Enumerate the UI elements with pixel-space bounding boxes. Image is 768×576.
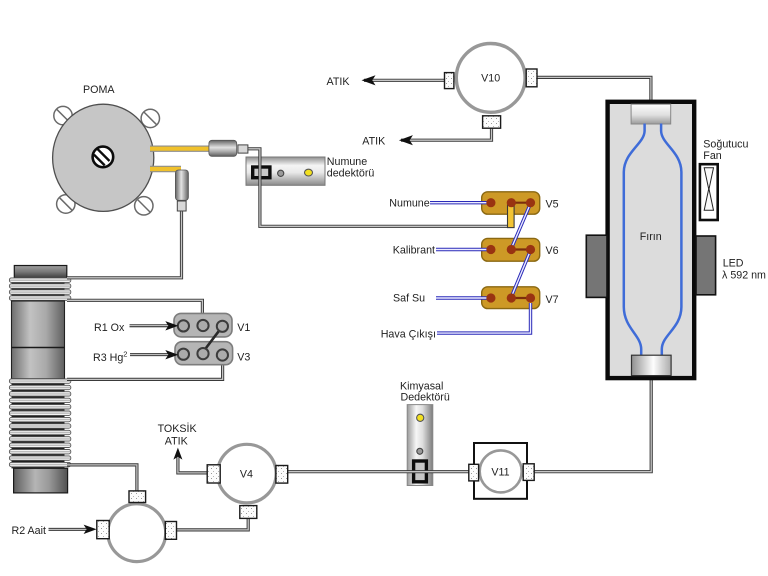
wire column to valve V1 [67,300,202,322]
valve V11 right port [523,464,534,481]
furnace top cap [631,104,671,124]
valve V11 rotor [480,450,522,492]
pump R2 top port [129,491,146,503]
link V1 to V3 [203,326,222,352]
column top cap [14,266,67,279]
svg-text:R1 Ox: R1 Ox [94,322,125,334]
valve V11 body [474,443,527,499]
arrow R3 Hg2 [130,353,169,356]
valve block V1 [174,313,232,337]
sample detector gray lamp [278,170,284,176]
svg-text:ATIK: ATIK [165,435,189,447]
pump R2 body [108,504,166,562]
valve V7 ports [486,293,535,302]
arrow toxic waste [173,448,182,460]
svg-text:R3 Hg2: R3 Hg2 [93,350,127,364]
column rib band 2 [9,379,70,469]
chemical detector window [414,461,427,482]
pump POMA screw top-right [141,109,159,127]
sample detector body [246,157,325,185]
valve V10 body [456,44,525,113]
furnace bottom cap [632,355,672,375]
svg-text:λ 592 nm: λ 592 nm [722,269,766,281]
valve block V7 [482,287,540,309]
valve V4 left port [207,465,220,483]
sample detector yellow lamp [305,169,313,176]
valve block V5 [482,192,540,214]
arrow waste top [362,75,376,85]
fitting vertical cylinder [175,170,188,200]
valve V11 left port [469,464,479,481]
svg-text:V4: V4 [240,468,253,480]
wire column to pump R2 [67,465,137,492]
pump POMA screw top-left [54,106,72,124]
valve V4 right port [276,466,288,484]
chemical detector gray lamp [417,448,423,454]
valve V4 bottom port [240,506,257,519]
maroon link V6 [511,248,530,250]
furnace left tab [586,235,607,297]
blue link V5 to V6 [511,204,530,249]
valve block V3 [175,342,233,365]
blue link V6 to V7 [511,251,530,298]
valve V10 bottom port [483,116,501,128]
wire furnace to V11 to V4 [288,370,651,472]
fitting small plug bottom [177,201,186,211]
wire V10 bottom to waste arrow [401,127,492,140]
svg-text:ATIK: ATIK [362,135,386,147]
chemical detector yellow lamp [417,414,424,421]
blue line Saf Su to V7 [436,296,491,299]
svg-text:V3: V3 [237,351,250,363]
tube pump outlet upper [150,145,209,151]
valve V5 ports [486,198,535,207]
fitting horizontal cylinder [209,140,237,156]
valve block V6 [482,238,540,261]
svg-text:dedektörü: dedektörü [327,167,375,179]
valve V1 ports [178,320,228,332]
pump POMA screw bottom-right [135,197,153,215]
svg-text:V6: V6 [546,245,559,257]
wire V10 to furnace [536,77,651,107]
furnace body [608,102,695,378]
svg-text:Numune: Numune [327,156,367,168]
wire pump to column [67,206,182,278]
svg-text:Hava Çıkışı: Hava Çıkışı [381,329,436,341]
pump R2 left port [97,521,109,539]
svg-text:Soğutucu: Soğutucu [703,138,748,150]
valve V4 body [218,444,277,503]
svg-text:Fırın: Fırın [640,231,662,243]
arrow R1 Ox [130,324,170,327]
blue line Hava Cikisi to V7 [437,303,531,333]
fitting small plug right [238,145,248,153]
svg-text:TOKSİK: TOKSİK [158,422,198,435]
svg-text:V7: V7 [546,294,559,306]
valve V5 yellow stub [508,205,515,228]
svg-text:V10: V10 [481,73,500,85]
valve V10 right port [526,69,537,87]
column body [12,301,65,379]
column bottom cap [14,468,68,493]
svg-text:Kalibrant: Kalibrant [393,245,435,257]
wire V4 bottom to pump R2 [176,517,248,530]
pump POMA body [53,104,154,211]
column rib band 1 [9,278,70,302]
furnace right tab [696,236,716,295]
valve V3 ports [178,348,228,361]
cooling fan frame [700,164,718,220]
svg-text:Saf Su: Saf Su [393,293,425,305]
chemical detector body [407,405,433,486]
svg-text:LED: LED [723,258,744,270]
pump POMA screw bottom-left [57,195,75,213]
blue line Kalibrant to V6 [436,248,491,251]
tube pump outlet lower [150,166,181,172]
wire V10 to waste arrow [364,79,445,82]
arrow R2 Aait [49,528,89,531]
svg-text:R2 Aait: R2 Aait [12,525,46,537]
valve V6 ports [486,245,535,254]
wire V4 to toxic waste arrow [178,455,208,473]
svg-text:Numune: Numune [389,198,429,210]
wire valve V3 to column [67,356,223,379]
svg-text:Dedektörü: Dedektörü [401,392,450,404]
svg-text:V1: V1 [237,322,250,334]
svg-text:ATIK: ATIK [327,76,351,88]
sample detector window [253,167,270,178]
svg-text:POMA: POMA [83,84,115,96]
svg-text:V5: V5 [546,198,559,210]
furnace cell (bottle) [624,124,682,357]
valve V10 left port [445,73,454,89]
arrow waste second [399,135,413,145]
blue line Numune to V5 [430,201,491,204]
maroon link V5 [511,202,530,204]
svg-text:Fan: Fan [703,150,721,162]
pump R2 right port [165,522,176,540]
pump POMA knob [93,147,114,168]
wire pump outlet to sample valve V5 [247,149,511,227]
cooling fan blades [704,168,713,211]
maroon link V7 [511,297,530,299]
svg-text:V11: V11 [491,466,509,478]
